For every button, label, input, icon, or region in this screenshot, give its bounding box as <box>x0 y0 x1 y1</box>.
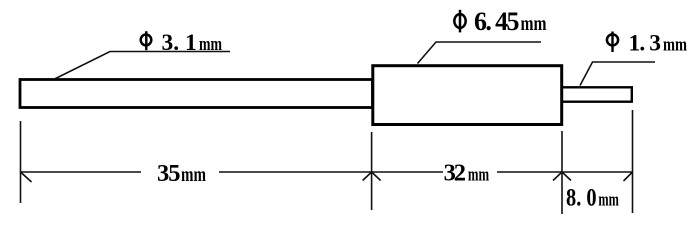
dimension line segment right of 32mm text through 8.0mm span <box>497 171 633 173</box>
extension line far right (x=632.5) <box>632 110 634 213</box>
svg-text:3. 1: 3. 1 <box>162 30 197 56</box>
label Φ3.1mm <box>141 30 222 56</box>
svg-text:mm: mm <box>521 13 547 35</box>
svg-text:mm: mm <box>468 165 489 186</box>
svg-text:mm: mm <box>663 35 687 56</box>
probe stem tube Φ3.1mm <box>20 80 373 108</box>
svg-text:1. 3: 1. 3 <box>629 31 662 57</box>
extension line left (x=20.5) <box>20 121 22 203</box>
label Φ6.45mm <box>454 7 546 36</box>
svg-text:8. 0: 8. 0 <box>566 184 597 211</box>
tip stub Φ1.3mm <box>562 87 632 101</box>
arrow wing at far right end <box>624 172 633 181</box>
dimension line segment between 35mm text and 32mm text <box>219 171 443 173</box>
arrow wings at middle junction <box>363 172 372 181</box>
dimension text 32mm <box>444 160 490 187</box>
label Φ1.3mm <box>607 31 687 57</box>
extension line body-right (x=562) <box>561 131 563 214</box>
extension line middle (x=371.6) <box>371 132 373 210</box>
svg-text:6. 45: 6. 45 <box>474 7 520 36</box>
sensor body Φ6.45mm <box>373 66 562 125</box>
dimension text 35mm <box>157 160 206 187</box>
svg-text:35: 35 <box>157 160 181 187</box>
svg-text:32: 32 <box>444 160 466 187</box>
svg-text:mm: mm <box>598 189 619 210</box>
svg-text:mm: mm <box>199 34 222 55</box>
leader line for Φ6.45mm label <box>418 42 542 64</box>
leader line for Φ3.1mm label <box>55 52 231 80</box>
svg-text:mm: mm <box>181 165 206 186</box>
dimension text 8.0mm <box>566 184 619 211</box>
leader line for Φ1.3mm label <box>580 62 655 86</box>
dimension line segment left of 35mm text <box>21 171 142 173</box>
arrow wing at left end <box>21 172 32 182</box>
arrow wings at body-right junction <box>553 172 562 181</box>
